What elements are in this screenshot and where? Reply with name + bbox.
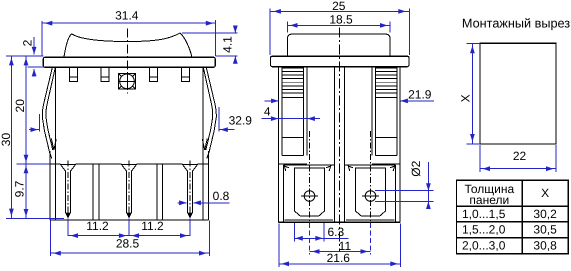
center partition [335,66,345,222]
right blade hole [362,191,379,202]
left tower inner wall [304,66,307,155]
right tower lines [375,137,397,155]
side view rocker [287,34,390,56]
svg-text:X: X [458,94,472,102]
center square boss [119,74,136,90]
rocker (front view) [64,33,192,57]
dim 31.4 [42,8,216,25]
svg-text:X: X [541,186,549,200]
svg-text:30,5: 30,5 [533,223,557,237]
svg-text:31.4: 31.4 [115,8,139,22]
svg-text:21.6: 21.6 [327,251,351,265]
left blade centerline [309,131,311,222]
svg-text:30,8: 30,8 [533,239,557,253]
dim 28.5 [50,236,209,255]
svg-text:11.2: 11.2 [141,219,164,233]
dim 21.9 [265,87,434,103]
table frame [457,180,569,253]
left tower outer wall [279,66,283,222]
right step line [372,163,400,165]
svg-text:Ø2: Ø2 [409,160,423,176]
pin 1 centerline [67,161,69,218]
svg-text:22: 22 [513,149,527,163]
svg-text:21.9: 21.9 [408,87,432,101]
right blade centerline [370,131,372,222]
dim 30 [0,56,14,218]
dim X [458,43,475,144]
terminal block outline [50,151,209,220]
left tower ribs [282,68,303,98]
pin 1 funnel [60,164,75,171]
right recess [345,165,396,222]
pin 2 funnel [121,164,136,171]
svg-text:4: 4 [264,105,271,119]
title mounting cutout [462,16,570,30]
dim 22 [480,149,556,171]
left tower lines [282,137,303,155]
body step line [50,163,209,165]
svg-text:2,0...3,0: 2,0...3,0 [462,239,506,253]
left terminal blade [295,168,325,216]
svg-text:панели: панели [469,193,509,207]
left recess hooks [284,166,330,171]
svg-text:20: 20 [13,99,27,113]
dim 25 extension lines [270,9,409,56]
left recess bottom [285,219,334,221]
svg-text:4.1: 4.1 [221,36,235,53]
svg-text:Монтажный вырез: Монтажный вырез [462,16,570,30]
right recess bottom [346,219,395,221]
dim 6.3 extension lines [294,223,324,242]
block divider 2 [157,164,162,220]
boss corner diagonals [119,74,135,88]
front body left edge [54,67,56,220]
dim D2 [409,160,431,209]
dim D2 extension lines [375,191,433,202]
dim 18.5 extension lines [287,22,390,33]
pin 3 centerline [189,161,191,218]
mounting tab 3 [149,67,157,81]
dim 21.6 [279,251,400,266]
front view flange [43,57,215,67]
dim 20 extension line [17,163,51,165]
svg-text:2: 2 [21,39,35,46]
dim X ticks [467,43,481,144]
dim 4.1 extension lines [182,33,238,56]
table row2 [462,223,557,237]
dim 9.7 [12,164,28,219]
right terminal blade [356,168,386,216]
pin extension lines [68,219,190,237]
left step line [279,163,307,165]
svg-text:6.3: 6.3 [327,225,344,239]
dim 22 extension lines [480,145,556,172]
svg-text:25: 25 [332,0,346,13]
mounting tab 2 [101,67,109,81]
front view centerline [127,29,129,94]
dim 21.6 extension lines [279,223,400,266]
dim 11.2 left [68,219,129,238]
table header col2 [541,186,549,200]
terminal pin 3 [188,172,193,218]
svg-text:32.9: 32.9 [229,114,253,128]
dim 11 [310,239,371,254]
dim 4 [262,105,320,121]
front body right edge [202,67,204,220]
right recess hooks [348,166,394,171]
table row lines [457,206,569,238]
mounting tab 4 [181,67,189,81]
block divider 1 [93,164,99,220]
svg-text:0.8: 0.8 [213,189,230,203]
dim 28.5 extension lines [50,221,209,257]
pins bottom extension line [6,218,64,220]
dim 18.5 [287,13,390,28]
svg-text:28.5: 28.5 [116,236,140,250]
dim 2 [21,37,37,77]
dim 0.8 [178,189,230,205]
boss cross lines [119,74,136,90]
pin 3 funnel [182,164,197,171]
right tower ribs [375,68,397,98]
mounting tab 1 [69,67,77,81]
dim 11.2 right [129,219,190,238]
svg-text:30,2: 30,2 [533,207,557,221]
side view flange [270,56,409,66]
flange top extension line [6,55,43,57]
svg-text:30: 30 [0,133,13,147]
left recess [284,165,335,222]
dim 6.3 [294,225,348,241]
terminal pin 2 [127,172,132,218]
dim 25 [270,0,409,14]
right spring clip [202,68,216,159]
terminal pin 1 [66,172,71,218]
svg-text:18.5: 18.5 [329,13,353,27]
right tower outer wall [397,66,400,222]
dim 31.4 extension lines [42,20,216,56]
dim 32.9 extension lines [39,107,219,132]
table row1 [462,207,557,221]
side view centerline [339,28,341,253]
dim 32.9 [29,114,252,133]
svg-text:1,5...2,0: 1,5...2,0 [462,223,506,237]
table column divider [521,180,523,253]
right tower inner wall [372,66,375,155]
svg-text:1,0...1,5: 1,0...1,5 [462,207,506,221]
left blade hole [301,191,318,202]
pin 2 centerline [128,161,130,218]
dim 11 extension lines [310,223,371,255]
dim 4.1 [221,26,238,64]
svg-text:9.7: 9.7 [12,180,26,197]
dim 2 bottom tick [28,66,44,68]
side view bottom edge [279,221,401,223]
table header col1 [464,182,514,207]
svg-text:11.2: 11.2 [86,219,109,233]
table row3 [462,239,557,253]
left spring clip [42,68,56,159]
dim 20 [13,56,28,164]
cutout rectangle [480,43,556,144]
boss circle [120,74,135,89]
